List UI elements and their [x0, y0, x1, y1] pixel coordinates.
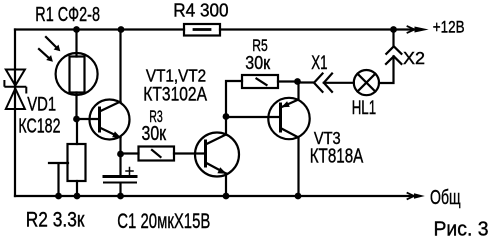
svg-text:X1: X1	[311, 53, 327, 74]
svg-text:30к: 30к	[245, 53, 270, 73]
svg-text:КТ3102А: КТ3102А	[143, 84, 207, 106]
svg-text:VT1,VT2: VT1,VT2	[146, 65, 206, 85]
svg-text:R2 3.3к: R2 3.3к	[26, 209, 85, 232]
svg-text:30к: 30к	[142, 122, 167, 145]
svg-text:КТ818А: КТ818А	[310, 144, 364, 167]
svg-text:С1 20мкХ15В: С1 20мкХ15В	[117, 209, 210, 233]
svg-text:R4 300: R4 300	[173, 0, 228, 20]
svg-text:Общ: Общ	[430, 187, 461, 209]
svg-text:X2: X2	[403, 48, 425, 68]
svg-text:Рис. 3: Рис. 3	[434, 218, 489, 239]
svg-text:КС182: КС182	[18, 114, 60, 137]
svg-text:R1 СФ2-8: R1 СФ2-8	[35, 4, 100, 26]
svg-text:VD1: VD1	[27, 94, 56, 115]
svg-text:HL1: HL1	[352, 97, 376, 119]
svg-text:+12В: +12В	[433, 19, 465, 37]
